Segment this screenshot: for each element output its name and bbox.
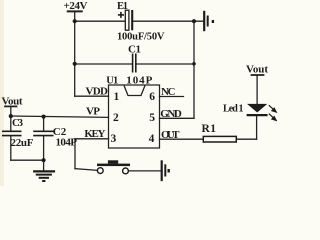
- wire KEY vertical: [74, 139, 76, 169]
- svg-text:Led 1: Led 1: [223, 104, 244, 115]
- capacitor C3 bottom stem: [10, 136, 12, 160]
- wire LED anode up: [256, 76, 258, 104]
- wire VDD pin 1: [75, 95, 109, 97]
- Vout right T-bar: [252, 74, 264, 76]
- svg-text:4: 4: [149, 133, 155, 145]
- svg-text:100uF/50V: 100uF/50V: [117, 32, 165, 43]
- wire top rail horizontal left of E1: [75, 20, 125, 22]
- power +24V bar: [68, 10, 82, 12]
- wire button right to ground: [128, 170, 160, 172]
- svg-text:C1: C1: [128, 44, 141, 56]
- capacitor C1 plates: [133, 54, 136, 73]
- wire KEY pin 3: [75, 138, 109, 140]
- wire GND pin 5: [160, 117, 195, 119]
- svg-text:KEY: KEY: [84, 128, 105, 140]
- push button left terminal: [97, 168, 103, 174]
- IC U1 notch: [124, 86, 145, 96]
- wire left rail vertical: [74, 21, 76, 96]
- wire top rail right of E1: [133, 20, 204, 22]
- wire right vertical to GND: [193, 21, 195, 118]
- capacitor C2 top stem: [43, 117, 45, 132]
- svg-text:+24V: +24V: [64, 0, 88, 12]
- capacitor C2 plates: [33, 131, 53, 135]
- svg-text:Vout: Vout: [2, 96, 23, 108]
- wire VP pin 2 row: [11, 116, 109, 117]
- LED arrow 1: [269, 105, 276, 112]
- wire C1 row left: [75, 63, 132, 65]
- svg-text:NC: NC: [161, 86, 176, 98]
- LED Led1 triangle: [247, 104, 267, 113]
- IC U1 body: [109, 85, 160, 148]
- svg-text:104P: 104P: [56, 137, 78, 149]
- svg-text:C3: C3: [12, 118, 23, 129]
- ground left stem: [43, 160, 45, 170]
- capacitor C2 bottom stem: [43, 136, 45, 160]
- wire Vout-left stem: [10, 106, 12, 116]
- svg-text:5: 5: [149, 112, 155, 124]
- ground bottom-left: [33, 171, 55, 181]
- node: top right ground junction: [192, 19, 196, 23]
- svg-text:1: 1: [114, 91, 120, 103]
- svg-text:OUT: OUT: [161, 129, 180, 141]
- LED cathode bar: [247, 114, 268, 116]
- node: C1 right junction: [192, 62, 196, 66]
- LED arrow 2: [269, 114, 276, 121]
- resistor R1: [203, 136, 236, 142]
- node: C2 top junction: [42, 115, 46, 119]
- wire bottom joining C3 C2: [11, 159, 44, 161]
- E1 plus sign: [118, 12, 124, 18]
- svg-text:VP: VP: [86, 106, 100, 118]
- svg-text:R1: R1: [202, 123, 217, 135]
- svg-text:22uF: 22uF: [11, 137, 34, 149]
- svg-text:2: 2: [113, 112, 119, 124]
- svg-text:U1: U1: [106, 76, 118, 87]
- push button actuator bar: [97, 164, 130, 167]
- svg-text:Vout: Vout: [246, 64, 268, 76]
- wire LED cathode down: [256, 116, 258, 139]
- svg-text:3: 3: [111, 133, 117, 145]
- capacitor E1 plates: [125, 10, 132, 30]
- wire R1 right: [236, 138, 256, 140]
- wire OUT pin 4: [160, 138, 204, 140]
- svg-text:VDD: VDD: [86, 86, 109, 98]
- Vout left T-bar: [5, 105, 17, 107]
- push button right terminal: [123, 168, 129, 174]
- wire C1 row right: [136, 63, 194, 65]
- node: +24V junction: [73, 19, 77, 23]
- svg-text:E1: E1: [117, 1, 128, 12]
- capacitor C3 top stem: [10, 116, 12, 131]
- power +24V stem: [74, 11, 76, 21]
- push button nub: [108, 160, 118, 163]
- ground top-right (horizontal): [204, 11, 213, 31]
- svg-text:GND: GND: [160, 108, 182, 120]
- node: ground bottom junction: [42, 158, 46, 162]
- capacitor C3 plates: [2, 131, 22, 135]
- svg-text:6: 6: [149, 91, 155, 103]
- node: C1 left junction: [73, 62, 77, 66]
- node: Vout-C3 junction: [9, 114, 13, 118]
- ground bottom-right (horizontal): [162, 160, 169, 181]
- wire NC stub pin 6: [160, 96, 184, 98]
- wire to button left: [75, 169, 97, 171]
